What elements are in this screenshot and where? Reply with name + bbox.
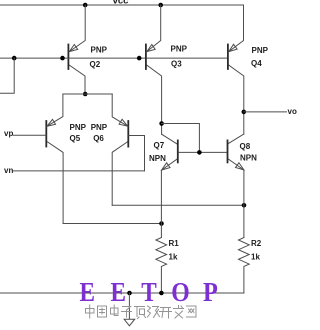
junction tail (Q2 collector to Q5/Q6 emitters)	[83, 92, 88, 97]
svg-text:PNP: PNP	[70, 123, 87, 132]
svg-text:vn: vn	[4, 166, 13, 175]
wire Q6 base to vn	[129, 136, 145, 171]
char 子	[122, 307, 132, 318]
svg-text:PNP: PNP	[91, 46, 108, 55]
svg-text:Q3: Q3	[171, 59, 182, 68]
svg-text:T: T	[141, 278, 157, 307]
watermark EETOP	[80, 277, 218, 308]
junction rail-R1	[159, 291, 164, 296]
wire left branch to edge	[0, 58, 14, 93]
watermark Chinese text 中国电子顶级开发网	[86, 305, 197, 319]
transistor Q6	[112, 94, 128, 205]
svg-text:vp: vp	[4, 129, 13, 138]
svg-text:PNP: PNP	[252, 46, 269, 55]
wire Q7-Q8 base rail	[179, 151, 227, 153]
resistor R1	[156, 238, 167, 294]
wire vp input	[14, 134, 46, 136]
label Q5 PNP	[70, 123, 87, 143]
label R2 value	[251, 239, 262, 261]
char 电	[111, 305, 119, 316]
transistor Q8	[228, 134, 244, 237]
transistor Q5	[46, 94, 63, 224]
label R1 value	[169, 239, 180, 261]
wire Q7 collector to base (diode connection)	[162, 124, 200, 153]
char 级	[148, 306, 160, 318]
svg-text:NPN: NPN	[240, 153, 257, 162]
transistor Q7	[161, 134, 177, 237]
svg-text:O: O	[171, 277, 189, 308]
label Q8 NPN	[240, 142, 258, 163]
transistor Q4	[228, 5, 244, 134]
svg-text:Q5: Q5	[70, 134, 81, 143]
junction base rail	[197, 150, 202, 155]
junction vcc-Q3	[158, 3, 163, 8]
svg-text:Q8: Q8	[240, 142, 251, 151]
transistor Q2	[68, 5, 85, 94]
svg-text:E: E	[80, 278, 95, 307]
label Q7 NPN	[149, 141, 166, 163]
svg-text:E: E	[111, 278, 126, 307]
resistor R2	[239, 238, 250, 294]
label Q3 PNP	[171, 45, 188, 69]
junction base-Q2	[60, 56, 65, 61]
svg-text:Q2: Q2	[90, 60, 101, 69]
wire vcc rail	[0, 4, 244, 6]
char 网	[187, 306, 197, 317]
junction base-left-tap	[12, 56, 17, 61]
svg-text:Q4: Q4	[251, 59, 262, 68]
junction Q8 emitter node	[242, 203, 247, 208]
junction base-Q3	[137, 56, 142, 61]
wire Q5/Q6 emitter rail	[63, 93, 112, 95]
char 开	[160, 308, 172, 319]
svg-text:PNP: PNP	[91, 123, 108, 132]
wire base net (Q2,Q3,Q4 bases)	[0, 57, 227, 59]
svg-text:vo: vo	[288, 107, 297, 116]
junction Q7 emitter node	[159, 221, 164, 226]
svg-text:P: P	[203, 277, 218, 307]
wire vo	[244, 111, 287, 113]
svg-text:1k: 1k	[251, 252, 260, 261]
wire Q6 collector to Q8 emitter	[112, 204, 244, 206]
junction vo node	[242, 110, 247, 115]
junction Q3/Q7 collector branch	[159, 121, 164, 126]
svg-text:1k: 1k	[169, 252, 178, 261]
svg-text:Q6: Q6	[93, 134, 104, 143]
label Q4 PNP	[251, 46, 269, 68]
ground (current sink arrow)	[124, 293, 135, 326]
svg-text:PNP: PNP	[171, 45, 188, 54]
wire vn input	[14, 170, 145, 172]
char 中	[86, 305, 95, 318]
char 发	[174, 306, 184, 319]
junction vcc-Q2	[83, 3, 88, 8]
wire bottom rail	[0, 292, 244, 294]
svg-text:vcc: vcc	[113, 0, 129, 7]
transistor Q3	[146, 5, 162, 134]
junction rail-ground arrow	[127, 291, 132, 296]
char 顶	[135, 307, 146, 319]
svg-text:NPN: NPN	[149, 154, 166, 163]
svg-text:Q7: Q7	[154, 141, 165, 150]
svg-text:R1: R1	[169, 239, 180, 248]
char 国	[98, 306, 107, 317]
svg-text:R2: R2	[251, 239, 262, 248]
wire Q5 collector to Q7 emitter	[63, 223, 161, 225]
label Q6 PNP	[91, 123, 108, 143]
label Q2 PNP	[90, 46, 108, 69]
